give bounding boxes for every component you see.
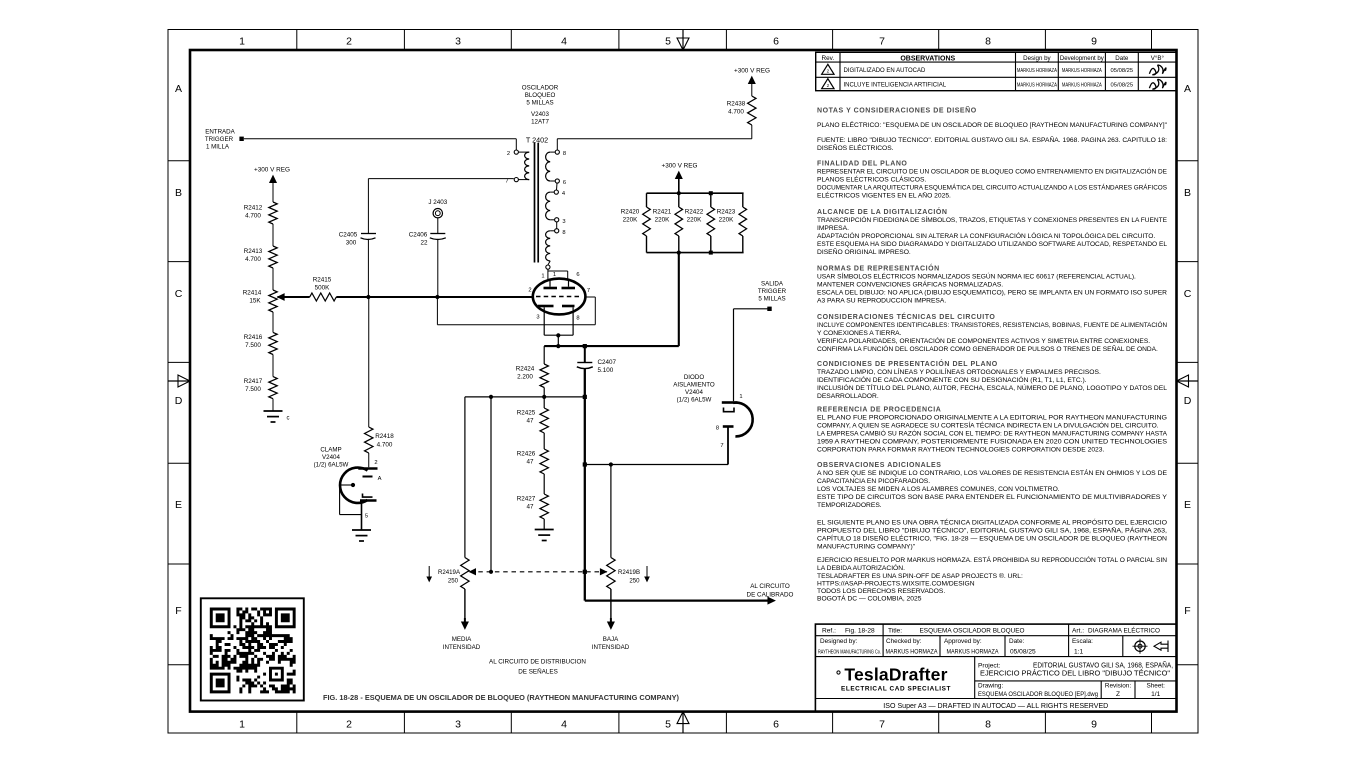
svg-text:FIG. 18-28 - ESQUEMA DE UN OSC: FIG. 18-28 - ESQUEMA DE UN OSCILADOR DE … — [323, 695, 679, 702]
svg-text:VERIFICA POLARIDADES, ORIENTAC: VERIFICA POLARIDADES, ORIENTACIÓN DE COM… — [817, 336, 1150, 345]
svg-text:9: 9 — [1091, 36, 1097, 48]
svg-text:5: 5 — [665, 719, 671, 731]
svg-text:3: 3 — [562, 219, 565, 225]
svg-text:Z: Z — [1116, 691, 1120, 698]
svg-text:1: 1 — [553, 272, 556, 278]
svg-text:OBSERVACIONES ADICIONALES: OBSERVACIONES ADICIONALES — [817, 462, 941, 469]
svg-text:BAJA: BAJA — [603, 636, 619, 643]
svg-text:7: 7 — [879, 719, 885, 731]
svg-text:Revision:: Revision: — [1105, 683, 1132, 690]
svg-text:DE CALIBRADO: DE CALIBRADO — [747, 591, 794, 598]
svg-text:PLANO ELÉCTRICO: "ESQUEMA DE U: PLANO ELÉCTRICO: "ESQUEMA DE UN OSCILADO… — [817, 120, 1168, 129]
svg-text:V2404: V2404 — [322, 454, 340, 461]
svg-text:7: 7 — [587, 288, 590, 294]
svg-text:05/08/25: 05/08/25 — [1111, 82, 1134, 88]
svg-text:220K: 220K — [719, 217, 735, 224]
svg-text:A NO SER QUE SE INDIQUE LO CON: A NO SER QUE SE INDIQUE LO CONTRARIO, LO… — [817, 468, 1168, 477]
svg-text:Date:: Date: — [1009, 638, 1024, 645]
svg-text:2: 2 — [346, 719, 352, 731]
svg-text:LA DEBIDA AUTORIZACIÓN.: LA DEBIDA AUTORIZACIÓN. — [817, 563, 905, 572]
svg-text:AISLAMIENTO: AISLAMIENTO — [673, 382, 715, 389]
svg-text:V2404: V2404 — [685, 389, 703, 396]
svg-text:ESTE ESQUEMA HA SIDO DIAGRAMAD: ESTE ESQUEMA HA SIDO DIAGRAMADO Y DIGITA… — [817, 241, 1167, 248]
svg-text:Art.:: Art.: — [1072, 627, 1084, 634]
svg-text:R2416: R2416 — [244, 334, 263, 341]
svg-text:ESQUEMA OSCILADOR BLOQUEO [EP]: ESQUEMA OSCILADOR BLOQUEO [EP].dwg — [978, 691, 1099, 698]
svg-text:ESCALA DEL DIBUJO: NO APLICA (: ESCALA DEL DIBUJO: NO APLICA (DIBUJO ESQ… — [817, 290, 1167, 297]
svg-text:FUENTE: LIBRO "DIBUJO TECNICO": FUENTE: LIBRO "DIBUJO TECNICO". EDITORIA… — [817, 135, 1167, 144]
svg-text:DOCUMENTAR LA ARQUITECTURA ESQ: DOCUMENTAR LA ARQUITECTURA ESQUEMÁTICA D… — [817, 183, 1167, 192]
svg-text:7.500: 7.500 — [245, 386, 261, 393]
svg-text:Sheet:: Sheet: — [1146, 683, 1165, 690]
svg-text:C: C — [1184, 288, 1192, 300]
svg-text:MARKUS HORMAZA: MARKUS HORMAZA — [1062, 68, 1102, 74]
svg-text:7: 7 — [720, 443, 723, 449]
svg-text:INTENSIDAD: INTENSIDAD — [443, 644, 481, 651]
svg-text:47: 47 — [526, 504, 534, 511]
svg-text:NORMAS DE REPRESENTACIÓN: NORMAS DE REPRESENTACIÓN — [817, 264, 940, 273]
svg-text:1/1: 1/1 — [1151, 691, 1160, 698]
svg-text:6: 6 — [563, 180, 566, 186]
svg-text:SALIDA: SALIDA — [761, 281, 784, 288]
svg-text:ISO Super A3 — DRAFTED IN AUTO: ISO Super A3 — DRAFTED IN AUTOCAD — ALL … — [883, 701, 1108, 710]
svg-text:B: B — [175, 187, 182, 199]
svg-text:TRAZADO LIMPIO, CON LÍNEAS Y P: TRAZADO LIMPIO, CON LÍNEAS Y POLILÍNEAS … — [817, 367, 1101, 376]
svg-text:TRIGGER: TRIGGER — [758, 288, 787, 295]
svg-text:Escala:: Escala: — [1072, 638, 1093, 645]
svg-text:MARKUS HORMAZA: MARKUS HORMAZA — [1017, 68, 1057, 74]
svg-text:3: 3 — [455, 36, 461, 48]
svg-text:DIGITALIZADO EN AUTOCAD: DIGITALIZADO EN AUTOCAD — [844, 68, 926, 74]
svg-text:R2424: R2424 — [516, 366, 535, 373]
svg-text:R2415: R2415 — [313, 277, 332, 284]
svg-text:NOTAS Y CONSIDERACIONES DE DIS: NOTAS Y CONSIDERACIONES DE DISEÑO — [817, 106, 977, 115]
svg-text:R2422: R2422 — [685, 209, 704, 216]
svg-text:220K: 220K — [655, 217, 671, 224]
svg-text:CONFIRMA LA FUNCIÓN DEL OSCILA: CONFIRMA LA FUNCIÓN DEL OSCILADOR COMO G… — [817, 344, 1158, 353]
svg-text:Development by: Development by — [1060, 55, 1105, 62]
svg-text:MARKUS HORMAZA: MARKUS HORMAZA — [1017, 82, 1057, 88]
svg-text:8: 8 — [985, 36, 991, 48]
svg-text:Date: Date — [1115, 55, 1129, 62]
svg-text:ENTRADA: ENTRADA — [205, 129, 235, 136]
svg-text:12AT7: 12AT7 — [531, 119, 549, 126]
svg-text:MARKUS HORMAZA: MARKUS HORMAZA — [947, 649, 1000, 656]
svg-text:B: B — [1184, 187, 1191, 199]
svg-text:CAPACITANCIA EN PICOFARADIOS.: CAPACITANCIA EN PICOFARADIOS. — [817, 478, 930, 485]
svg-text:4.700: 4.700 — [245, 256, 261, 263]
svg-text:Fig. 18-28: Fig. 18-28 — [845, 627, 875, 634]
svg-text:A: A — [175, 83, 182, 95]
svg-text:250: 250 — [629, 578, 640, 585]
svg-text:R2414: R2414 — [243, 290, 262, 297]
svg-text:DIODO: DIODO — [684, 374, 704, 381]
svg-text:R2423: R2423 — [717, 209, 736, 216]
svg-text:5: 5 — [665, 36, 671, 48]
svg-text:R2421: R2421 — [653, 209, 672, 216]
svg-text:FINALIDAD DEL PLANO: FINALIDAD DEL PLANO — [817, 161, 907, 168]
svg-text:5 MILLAS: 5 MILLAS — [758, 296, 785, 303]
svg-text:COMPANY, A QUIEN SE AGRADECE S: COMPANY, A QUIEN SE AGRADECE SU CORTESÍA… — [817, 421, 1159, 430]
svg-text:E: E — [1184, 499, 1191, 511]
svg-text:220K: 220K — [687, 217, 703, 224]
svg-text:A: A — [378, 476, 382, 482]
svg-text:(1/2) 6AL5W: (1/2) 6AL5W — [314, 462, 349, 469]
svg-text:ELÉCTRICOS VIGENTES EN EL AÑO: ELÉCTRICOS VIGENTES EN EL AÑO 2025. — [817, 191, 951, 200]
svg-text:8: 8 — [716, 426, 719, 432]
svg-text:R2438: R2438 — [727, 101, 746, 108]
svg-text:2.200: 2.200 — [517, 374, 533, 381]
svg-text:Title:: Title: — [888, 627, 902, 634]
svg-text:T 2402: T 2402 — [526, 136, 548, 145]
svg-text:Ref.:: Ref.: — [822, 627, 836, 634]
svg-text:CLAMP: CLAMP — [320, 447, 341, 454]
svg-text:220K: 220K — [623, 217, 639, 224]
svg-text:PROPUESTO DEL LIBRO "DIBUJO TÉ: PROPUESTO DEL LIBRO "DIBUJO TÉCNICO", ED… — [817, 526, 1167, 535]
svg-text:USAR SÍMBOLOS ELÉCTRICOS NORMA: USAR SÍMBOLOS ELÉCTRICOS NORMALIZADOS SE… — [817, 272, 1136, 281]
svg-text:Design by: Design by — [1023, 55, 1051, 62]
svg-text:4.700: 4.700 — [728, 109, 744, 116]
svg-text:MEDIA: MEDIA — [452, 636, 472, 643]
svg-text:4.700: 4.700 — [377, 442, 393, 449]
svg-text:4: 4 — [561, 719, 567, 731]
svg-text:(1/2) 6AL5W: (1/2) 6AL5W — [677, 397, 712, 404]
svg-text:EL PLANO FUE PROPORCIONADO ORI: EL PLANO FUE PROPORCIONADO ORIGINALMENTE… — [817, 415, 1167, 422]
svg-text:F: F — [175, 605, 181, 617]
svg-text:AL CIRCUITO: AL CIRCUITO — [750, 583, 790, 590]
svg-text:CONSIDERACIONES TÉCNICAS DEL C: CONSIDERACIONES TÉCNICAS DEL CIRCUITO — [817, 312, 995, 321]
svg-text:9: 9 — [1091, 719, 1097, 731]
svg-text:C: C — [175, 288, 183, 300]
svg-text:5.100: 5.100 — [598, 367, 614, 374]
svg-text:47: 47 — [526, 459, 534, 466]
svg-text:1: 1 — [239, 719, 245, 731]
svg-text:1 MILLA: 1 MILLA — [206, 144, 230, 151]
svg-text:LA EMPRESA CAMBIÓ SU RAZÓN SOC: LA EMPRESA CAMBIÓ SU RAZÓN SOCIAL CON EL… — [817, 429, 1168, 438]
svg-text:CONDICIONES DE PRESENTACIÓN DE: CONDICIONES DE PRESENTACIÓN DEL PLANO — [817, 359, 998, 368]
svg-text:ELECTRICAL CAD SPECIALIST: ELECTRICAL CAD SPECIALIST — [841, 686, 951, 693]
svg-text:DE SEÑALES: DE SEÑALES — [518, 667, 558, 676]
svg-text:A: A — [1184, 83, 1191, 95]
svg-text:MARKUS HORMAZA: MARKUS HORMAZA — [1062, 82, 1102, 88]
svg-text:ESTE TIPO DE CIRCUITOS SON BAS: ESTE TIPO DE CIRCUITOS SON BASE PARA ENT… — [817, 494, 1168, 501]
svg-text:D: D — [175, 395, 183, 407]
svg-text:Checked by:: Checked by: — [886, 638, 922, 645]
svg-text:1:1: 1:1 — [1074, 649, 1083, 656]
svg-text:7: 7 — [505, 179, 508, 185]
svg-text:REFERENCIA DE PROCEDENCIA: REFERENCIA DE PROCEDENCIA — [817, 407, 941, 414]
svg-text:2: 2 — [827, 83, 830, 88]
svg-text:PLANOS ELÉCTRICOS CLÁSICOS.: PLANOS ELÉCTRICOS CLÁSICOS. — [817, 175, 926, 184]
svg-text:J 2403: J 2403 — [428, 199, 447, 206]
svg-text:D: D — [1184, 395, 1192, 407]
svg-text:2: 2 — [374, 460, 377, 466]
svg-text:IMPRESA.: IMPRESA. — [817, 225, 849, 232]
svg-text:LOS VOLTAJES SE MIDEN A LOS AL: LOS VOLTAJES SE MIDEN A LOS ALAMBRES COM… — [817, 486, 1060, 493]
svg-text:1: 1 — [239, 36, 245, 48]
svg-text:R2418: R2418 — [375, 433, 394, 440]
svg-text:Rev.: Rev. — [822, 55, 835, 62]
svg-text:8: 8 — [563, 151, 566, 157]
svg-text:15K: 15K — [249, 298, 261, 305]
svg-text:22: 22 — [420, 240, 428, 247]
svg-text:Approved by:: Approved by: — [944, 638, 982, 645]
svg-text:RAYTHEON MANUFACTURING Co.: RAYTHEON MANUFACTURING Co. — [818, 649, 881, 655]
svg-text:R2413: R2413 — [244, 248, 263, 255]
svg-text:R2412: R2412 — [244, 205, 263, 212]
svg-text:5 MILLAS: 5 MILLAS — [526, 100, 553, 107]
svg-text:INCLUYE COMPONENTES IDENTIFICA: INCLUYE COMPONENTES IDENTIFICABLES: TRAN… — [817, 320, 1167, 329]
svg-text:OSCILADOR: OSCILADOR — [522, 85, 559, 92]
svg-text:1: 1 — [541, 274, 544, 280]
svg-text:R2425: R2425 — [517, 410, 536, 417]
svg-text:8: 8 — [562, 230, 565, 236]
svg-text:REPRESENTAR EL CIRCUITO DE UN: REPRESENTAR EL CIRCUITO DE UN OSCILADOR … — [817, 167, 1168, 176]
svg-text:2: 2 — [507, 151, 510, 157]
svg-text:DISEÑOS ELÉCTRICOS.: DISEÑOS ELÉCTRICOS. — [817, 143, 894, 152]
svg-text:c: c — [287, 416, 290, 422]
svg-text:C2406: C2406 — [409, 232, 428, 239]
svg-text:IDENTIFICACIÓN DE CADA COMPONE: IDENTIFICACIÓN DE CADA COMPONENTE CON SU… — [817, 375, 1087, 384]
svg-text:TEMPORIZADORES.: TEMPORIZADORES. — [817, 502, 882, 509]
svg-text:1: 1 — [739, 394, 742, 400]
svg-text:EJERCICIO RESUELTO POR MARKUS: EJERCICIO RESUELTO POR MARKUS HORMAZA. E… — [817, 555, 1167, 564]
svg-text:INCLUSIÓN DE TÍTULO DEL PLANO,: INCLUSIÓN DE TÍTULO DEL PLANO, AUTOR, FE… — [817, 383, 1167, 392]
svg-text:3: 3 — [455, 719, 461, 731]
svg-text:TESLADRAFTER ES UNA SPIN-OFF D: TESLADRAFTER ES UNA SPIN-OFF DE ASAP PRO… — [817, 572, 1023, 580]
svg-text:05/08/25: 05/08/25 — [1111, 68, 1134, 74]
svg-text:V°B°: V°B° — [1151, 55, 1165, 62]
svg-text:MANTENER CONVENCIONES GRÁFICAS: MANTENER CONVENCIONES GRÁFICAS NORMALIZA… — [817, 280, 1003, 289]
svg-text:INTENSIDAD: INTENSIDAD — [592, 644, 630, 651]
svg-text:6: 6 — [576, 272, 579, 278]
svg-text:INCLUYE INTELIGENCIA ARTIFICIA: INCLUYE INTELIGENCIA ARTIFICIAL — [844, 82, 947, 88]
svg-text:47: 47 — [526, 418, 534, 425]
svg-text:3: 3 — [536, 315, 539, 321]
svg-text:V2403: V2403 — [531, 111, 549, 118]
svg-text:R2427: R2427 — [517, 496, 536, 503]
svg-text:7: 7 — [879, 36, 885, 48]
svg-text:1959 A RAYTHEON COMPANY, POSTE: 1959 A RAYTHEON COMPANY, POSTERIORMENTE … — [817, 439, 1168, 446]
svg-text:AL CIRCUITO DE DISTRIBUCION: AL CIRCUITO DE DISTRIBUCION — [489, 659, 586, 666]
svg-text:DISEÑO ORIGINAL IMPRESO.: DISEÑO ORIGINAL IMPRESO. — [817, 247, 911, 256]
svg-text:EL SIGUIENTE PLANO ES UNA OBRA: EL SIGUIENTE PLANO ES UNA OBRA TÉCNICA D… — [817, 518, 1167, 527]
svg-text:R2419B: R2419B — [618, 569, 640, 576]
svg-text:ESQUEMA OSCILADOR BLOQUEO: ESQUEMA OSCILADOR BLOQUEO — [920, 628, 1025, 635]
svg-text:C2405: C2405 — [339, 232, 358, 239]
svg-text:EJERCICIO PRÁCTICO DEL LIBRO ": EJERCICIO PRÁCTICO DEL LIBRO "DIBUJO TÉC… — [980, 669, 1170, 678]
svg-text:ALCANCE DE LA DIGITALIZACIÓN: ALCANCE DE LA DIGITALIZACIÓN — [817, 207, 948, 216]
svg-text:300: 300 — [346, 240, 357, 247]
svg-text:TODOS LOS DERECHOS RESERVADOS.: TODOS LOS DERECHOS RESERVADOS. — [817, 588, 945, 595]
svg-text:BLOQUEO: BLOQUEO — [525, 92, 556, 99]
svg-text:8: 8 — [576, 316, 579, 322]
svg-text:R2419A: R2419A — [438, 569, 461, 576]
svg-text:ADAPTACIÓN PROPORCIONAL SIN AL: ADAPTACIÓN PROPORCIONAL SIN ALTERAR LA C… — [817, 231, 1155, 240]
svg-text:C2407: C2407 — [598, 359, 617, 366]
svg-text:E: E — [175, 499, 182, 511]
svg-text:8: 8 — [985, 719, 991, 731]
svg-text:TeslaDrafter: TeslaDrafter — [844, 665, 947, 685]
svg-text:HTTPS://ASAP-PROJECTS.WIXSITE.: HTTPS://ASAP-PROJECTS.WIXSITE.COM/DESIGN — [817, 581, 975, 588]
svg-text:250: 250 — [448, 578, 459, 585]
svg-text:+300 V REG: +300 V REG — [734, 68, 770, 75]
svg-text:5: 5 — [365, 514, 368, 520]
svg-text:7.500: 7.500 — [245, 342, 261, 349]
svg-text:R2426: R2426 — [517, 451, 536, 458]
svg-text:MANUFACTURING COMPANY)": MANUFACTURING COMPANY)" — [817, 544, 916, 551]
svg-text:4.700: 4.700 — [245, 213, 261, 220]
svg-text:A3 PARA SU REPRODUCCION IMPRES: A3 PARA SU REPRODUCCION IMPRESA. — [817, 298, 946, 305]
svg-text:F: F — [1184, 605, 1190, 617]
svg-text:2: 2 — [528, 288, 531, 294]
svg-text:BOGOTÁ DC — COLOMBIA, 2025: BOGOTÁ DC — COLOMBIA, 2025 — [817, 594, 922, 603]
svg-text:R2417: R2417 — [244, 378, 263, 385]
svg-text:CAPÍTULO 18 DISEÑO ELÉCTRICO,: CAPÍTULO 18 DISEÑO ELÉCTRICO, "FIG. 18-2… — [817, 534, 1167, 543]
svg-text:+300 V REG: +300 V REG — [254, 167, 290, 174]
svg-text:05/08/25: 05/08/25 — [1010, 649, 1036, 656]
svg-text:DESARROLLADOR.: DESARROLLADOR. — [817, 393, 879, 400]
svg-text:4: 4 — [561, 36, 567, 48]
svg-text:OBSERVATIONS: OBSERVATIONS — [900, 56, 955, 63]
svg-text:DIAGRAMA ELÉCTRICO: DIAGRAMA ELÉCTRICO — [1088, 626, 1160, 635]
svg-text:500K: 500K — [315, 285, 331, 292]
svg-text:TRANSCRIPCIÓN FIDEDIGNA DE SÍM: TRANSCRIPCIÓN FIDEDIGNA DE SÍMBOLOS, TRA… — [817, 215, 1168, 224]
svg-text:Y CONEXIONES A TIERRA.: Y CONEXIONES A TIERRA. — [817, 330, 902, 337]
svg-text:Drawing:: Drawing: — [978, 683, 1003, 690]
svg-text:+300 V REG: +300 V REG — [661, 163, 697, 170]
svg-text:CORPORATION PARA FORMAR RAYTHE: CORPORATION PARA FORMAR RAYTHEON TECHNOL… — [817, 447, 1105, 454]
svg-text:6: 6 — [773, 719, 779, 731]
svg-text:MARKUS HORMAZA: MARKUS HORMAZA — [886, 649, 939, 656]
svg-text:R2420: R2420 — [621, 209, 640, 216]
svg-text:2: 2 — [346, 36, 352, 48]
svg-text:2: 2 — [827, 68, 830, 73]
svg-text:Designed by:: Designed by: — [820, 638, 858, 645]
svg-text:6: 6 — [773, 36, 779, 48]
svg-text:TRIGGER: TRIGGER — [205, 136, 234, 143]
